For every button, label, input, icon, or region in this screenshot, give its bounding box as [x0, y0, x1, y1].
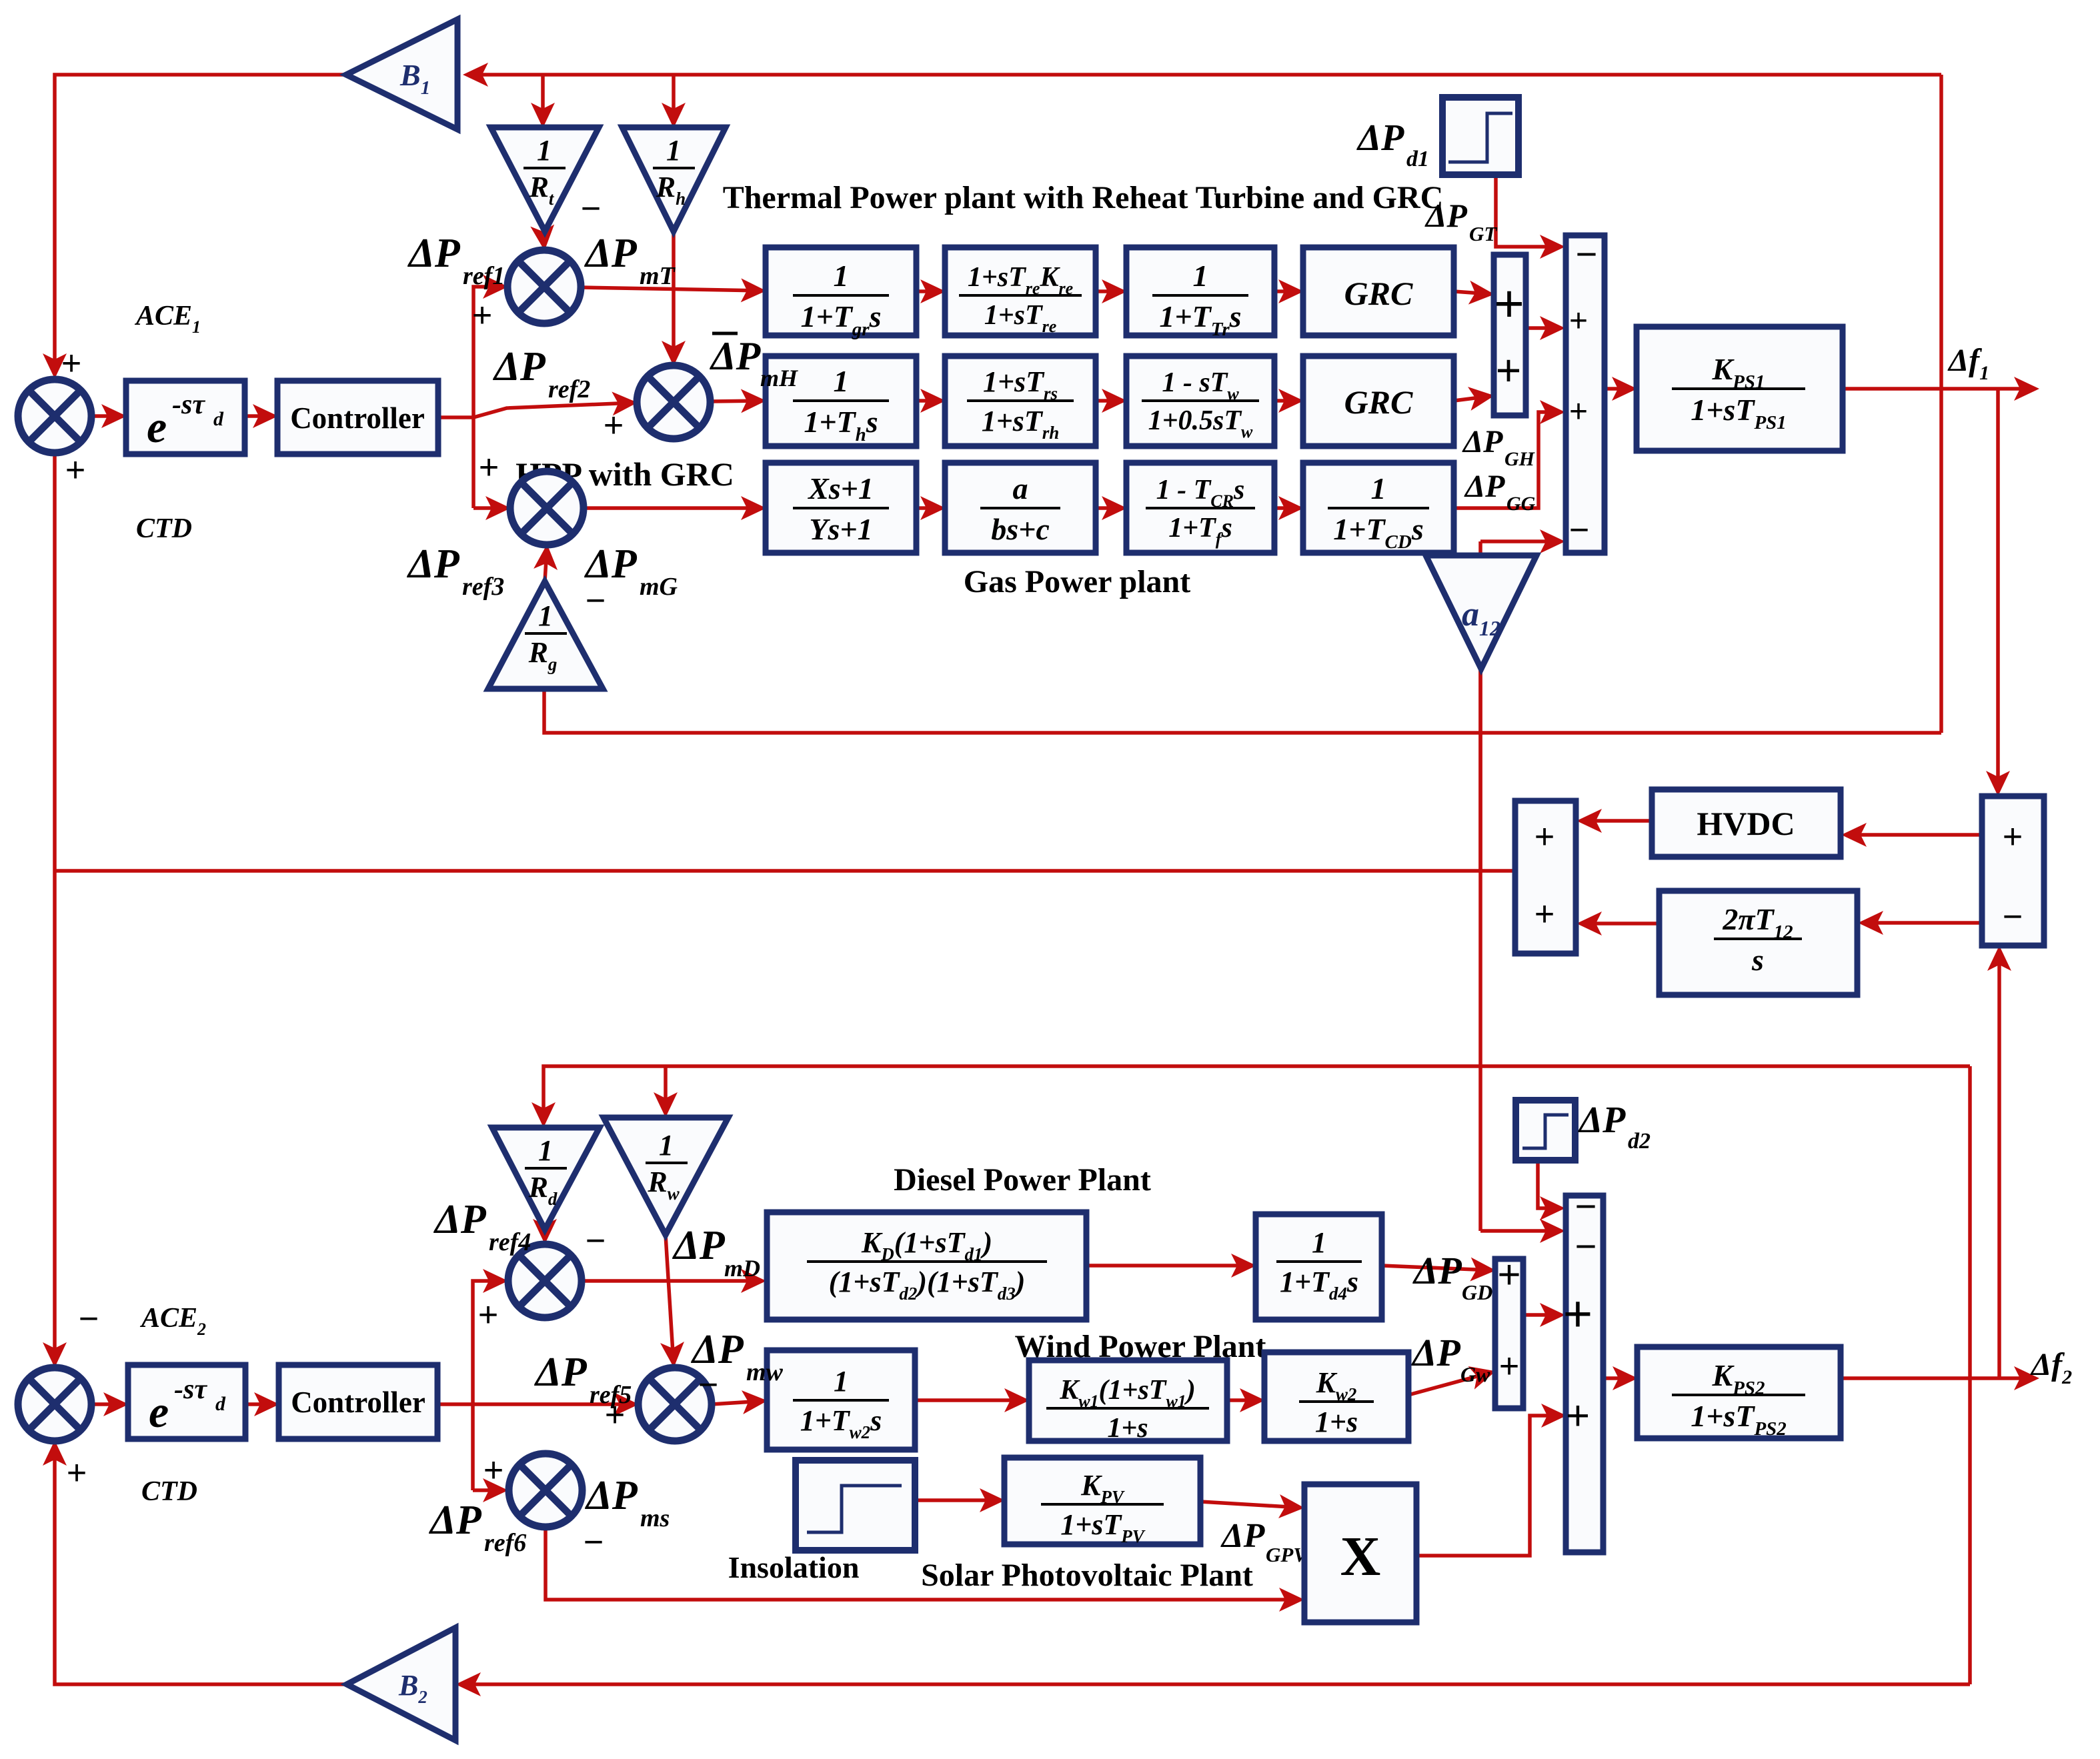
wire top feedback line y112 from Df1 to B1 [467, 73, 1941, 77]
block GRC thermal [1303, 247, 1454, 335]
wire 1/Rt apex into DPref1 summer [543, 231, 544, 247]
svg-text:1: 1 [1312, 1226, 1326, 1259]
svg-text:d1: d1 [1406, 147, 1429, 171]
block wind Kw1 [1029, 1360, 1227, 1441]
svg-text:+: + [1569, 303, 1588, 339]
block KPS2 [1637, 1347, 1841, 1438]
block hydro compensator [945, 356, 1096, 446]
svg-text:+: + [2003, 817, 2023, 856]
wire drop into 1/Rh [672, 75, 676, 124]
svg-text:(1+sTd2​)(1+sTd3​): (1+sTd2​)(1+sTd3​) [829, 1266, 1026, 1304]
block Controller area2 [279, 1365, 437, 1439]
svg-text:ΔP: ΔP [690, 1327, 744, 1372]
svg-text:+: + [483, 1451, 503, 1490]
svg-text:ΔP: ΔP [1462, 424, 1503, 459]
block DPd1 step source [1442, 97, 1518, 175]
svg-text:GRC: GRC [1344, 383, 1413, 421]
wire narrow summer2 output into big summer2 [1523, 1313, 1561, 1317]
svg-text:ΔP: ΔP [1412, 1249, 1462, 1292]
block KPS1 [1637, 327, 1843, 451]
wire tie summer to 2piT12 block [1862, 921, 1982, 925]
svg-text:+: + [1534, 895, 1554, 934]
svg-text:ACE1​: ACE1​ [134, 301, 201, 337]
tie summer right plus-minus [1982, 796, 2044, 946]
svg-text:ΔP: ΔP [1220, 1517, 1266, 1555]
svg-text:e: e [149, 1386, 169, 1437]
wire DPd2 step output into big summer2 [1538, 1160, 1561, 1208]
svg-text:bs+c: bs+c [991, 512, 1050, 546]
wire vertical right x2911 Df1 junction down [1939, 75, 1943, 733]
svg-text:GRC: GRC [1344, 275, 1413, 312]
wire 1/Rd apex into DPref4 summer [543, 1230, 547, 1240]
svg-text:−: − [581, 189, 601, 228]
svg-text:−: − [1569, 511, 1589, 549]
wire B2 input from Df2 [459, 1682, 1970, 1686]
block wind Tw2 [767, 1350, 915, 1450]
svg-text:1: 1 [834, 1365, 848, 1398]
wire DPmD from DPref4 to diesel block [582, 1279, 762, 1283]
wire controller to DPmH summer [473, 403, 634, 417]
wire gas output riser into big summer1 [1454, 412, 1561, 508]
wire tie-line sum output to left x82 bus [55, 869, 1515, 873]
svg-text:ΔP: ΔP [672, 1223, 726, 1268]
wire 1/Rg apex up into DPref3 summer [545, 548, 547, 581]
summing junction ACE2 [18, 1368, 91, 1441]
wire a12 input segment and into big summer1 minus [1478, 555, 1482, 871]
svg-text:e: e [147, 401, 167, 452]
summing junction DPmH [637, 365, 710, 439]
svg-text:1: 1 [834, 364, 849, 398]
wire a12 apex down to area2 big summer2 minus [1478, 669, 1482, 1231]
svg-text:+: + [67, 1454, 87, 1492]
svg-text:1: 1 [659, 1129, 674, 1162]
svg-text:GG: GG [1506, 493, 1536, 515]
svg-text:1+0.5sTw​: 1+0.5sTw​ [1148, 405, 1253, 441]
block HVDC [1652, 789, 1841, 857]
svg-text:s: s [1751, 943, 1764, 977]
svg-text:a: a [1013, 471, 1028, 505]
wire hydro row arrows [916, 399, 942, 403]
block GRC hydro [1303, 356, 1454, 446]
block gas valve [945, 463, 1096, 553]
wire DPref5 to wind block [712, 1401, 764, 1404]
svg-text:+: + [1496, 345, 1522, 395]
wire tie summer to HVDC [1845, 833, 1982, 837]
svg-text:1+s: 1+s [1315, 1406, 1358, 1438]
svg-text:CTD: CTD [141, 1476, 197, 1507]
wire gas row arrows [916, 506, 942, 510]
wire DPd1 step output into big summer1 [1496, 175, 1561, 247]
wire 1/Rh apex down into DPmH summer [672, 231, 676, 362]
wire X output riser into big summer2 [1416, 1416, 1562, 1556]
svg-text:ref3: ref3 [462, 573, 504, 601]
summer big area1 [1566, 235, 1605, 553]
summer narrow area1 [1494, 255, 1526, 415]
wire Df2 riser x2954 down to B2 line [1968, 1066, 1972, 1684]
svg-text:1: 1 [538, 599, 553, 632]
wire KPV output DPGPV into X block [1200, 1502, 1300, 1508]
block thermal governor [766, 247, 916, 335]
wire area2 droop feedback line y1599 [544, 1066, 1970, 1124]
svg-text:+: + [1569, 394, 1588, 429]
wire drop into 1/Rw [664, 1066, 668, 1114]
svg-text:+: + [1534, 817, 1554, 856]
summer big area2 [1566, 1196, 1603, 1552]
wire Td4 output DPGD into narrow summer2 [1382, 1266, 1492, 1270]
svg-text:−: − [79, 1300, 99, 1338]
svg-text:ΔP: ΔP [406, 541, 460, 587]
wire thermal row arrows [916, 289, 942, 293]
wire DPmT from DPref1 summer to thermal row [581, 287, 762, 291]
block delay e2 [128, 1365, 245, 1439]
svg-text:+: + [61, 344, 81, 383]
wire delay e1 to Controller1 [245, 414, 274, 418]
svg-text:−: − [1575, 1225, 1597, 1267]
svg-text:−: − [586, 581, 606, 620]
svg-text:+: + [1563, 1286, 1593, 1342]
svg-text:1+sTre​Kre​: 1+sTre​Kre​ [968, 262, 1073, 298]
wire ACE2 summer to delay e2 [91, 1402, 125, 1406]
wire Kw1 to Kw2 [1227, 1398, 1261, 1402]
svg-text:Xs+1: Xs+1 [807, 471, 874, 505]
wire 2piT12 to left plus-plus summer [1581, 922, 1659, 926]
svg-text:Insolation: Insolation [728, 1550, 860, 1584]
svg-text:+: + [1497, 1252, 1520, 1297]
block thermal turbine [1126, 247, 1274, 335]
wire Kw2 output DPGw into narrow summer2 [1408, 1372, 1492, 1395]
svg-text:mH: mH [760, 365, 798, 391]
svg-text:1: 1 [1193, 259, 1208, 293]
wire big summer1 to KPS1 [1605, 387, 1633, 391]
summing junction DPref1 [507, 250, 581, 323]
wire diesel to Td4 block [1086, 1264, 1252, 1268]
wire HVDC to left plus-plus summer [1581, 819, 1652, 823]
wire 1/Rw apex into DPref5 summer [666, 1235, 674, 1364]
svg-text:Thermal Power plant with Rehea: Thermal Power plant with Reheat Turbine … [723, 180, 1444, 215]
svg-text:-sτ: -sτ [172, 389, 205, 420]
block gas discharge [1303, 463, 1454, 553]
svg-text:GH: GH [1504, 448, 1536, 470]
svg-text:1+Td4​s: 1+Td4​s [1280, 1266, 1358, 1304]
wire DPref6 down and right into X block [546, 1527, 1300, 1600]
svg-text:GD: GD [1462, 1280, 1492, 1304]
svg-text:+: + [65, 451, 85, 489]
wire B1 output to ACE1 summer [55, 75, 346, 375]
block 2piT12 over s [1659, 891, 1857, 995]
wire Df1 output [1843, 387, 2035, 391]
gain B2 triangle [347, 1628, 455, 1740]
wire delay e2 to Controller2 [245, 1402, 275, 1406]
svg-text:1+Tf​s: 1+Tf​s [1168, 513, 1232, 549]
wire big summer2 to KPS2 [1603, 1376, 1634, 1380]
block insolation step source [796, 1460, 915, 1550]
svg-text:+: + [479, 448, 499, 487]
summing junction DPref4 [508, 1244, 582, 1318]
svg-text:Gw: Gw [1460, 1362, 1490, 1386]
block gas combustor [1126, 463, 1274, 553]
svg-text:ref5: ref5 [590, 1381, 632, 1409]
block hydro turbine [1126, 356, 1274, 446]
block solar KPV [1004, 1458, 1200, 1544]
block delay e1 [126, 381, 245, 454]
wire DPmH summer to hydro row [710, 401, 762, 401]
summing junction DPref6 [509, 1454, 582, 1527]
block wind Kw2 [1264, 1352, 1408, 1441]
svg-text:+: + [604, 406, 624, 445]
svg-text:CTD: CTD [136, 513, 192, 544]
wire 1/Rg feedback line y1099 [544, 689, 1941, 733]
svg-text:d2: d2 [1628, 1129, 1651, 1154]
svg-text:Diesel Power Plant: Diesel Power Plant [894, 1162, 1151, 1198]
svg-text:d: d [213, 408, 224, 430]
gain 1/Rt triangle [491, 127, 599, 231]
summer narrow area2 [1495, 1259, 1523, 1408]
wire x82 vertical bus ACE tie input [53, 453, 57, 871]
block diesel engine KD [767, 1212, 1086, 1320]
summing junction ACE1 [18, 379, 91, 453]
block diesel Td4 [1256, 1214, 1382, 1320]
svg-text:ΔP: ΔP [584, 541, 638, 587]
gain 1/Rd triangle [492, 1128, 600, 1230]
wire insolation step to KPV [915, 1498, 1001, 1502]
svg-text:ref6: ref6 [484, 1529, 526, 1557]
svg-text:ΔP: ΔP [1578, 1100, 1626, 1141]
wire Tw2 to Kw1 [915, 1398, 1026, 1402]
svg-text:1: 1 [538, 1134, 553, 1167]
svg-text:ΔP: ΔP [1356, 117, 1404, 159]
svg-text:Ys+1: Ys+1 [809, 512, 872, 546]
svg-text:ΔP: ΔP [428, 1498, 482, 1543]
svg-text:ACE2​: ACE2​ [139, 1303, 206, 1339]
svg-text:−: − [584, 1523, 604, 1562]
gain B1 triangle [346, 19, 457, 129]
svg-text:1: 1 [537, 134, 552, 167]
wire controller to DPref3 summer [473, 506, 507, 510]
svg-text:ref1: ref1 [463, 262, 505, 290]
block DPd2 step source [1516, 1100, 1575, 1160]
svg-text:ΔP: ΔP [1411, 1331, 1460, 1374]
gain 1/Rg triangle [488, 581, 603, 689]
gain 1/Rh triangle [622, 127, 726, 231]
svg-text:Controller: Controller [290, 401, 425, 435]
block gas governor [766, 463, 916, 553]
svg-text:1: 1 [834, 259, 849, 293]
svg-text:ΔP: ΔP [433, 1197, 487, 1242]
wire DPref3 summer to gas row [584, 506, 762, 510]
svg-text:−: − [1575, 1185, 1597, 1227]
svg-text:ΔP: ΔP [584, 1473, 638, 1518]
svg-text:ΔP: ΔP [492, 344, 546, 389]
svg-text:-sτ: -sτ [174, 1374, 207, 1405]
svg-text:−: − [1576, 233, 1598, 275]
wire B2 output to ACE2 summer [55, 1444, 455, 1684]
svg-text:mT: mT [640, 262, 676, 290]
wire Controller2 output split [437, 1402, 475, 1406]
wire Df2 output [1841, 1376, 2035, 1380]
wire drop into 1/Rt [541, 75, 545, 124]
svg-text:mD: mD [724, 1255, 760, 1282]
block Controller area1 [277, 381, 438, 454]
gain a12 triangle [1426, 555, 1536, 669]
svg-text:+: + [1494, 274, 1524, 333]
svg-text:ΔP: ΔP [1424, 197, 1467, 234]
svg-text:−: − [586, 1222, 606, 1260]
block thermal reheat [945, 247, 1096, 335]
svg-text:Solar Photovoltaic Plant: Solar Photovoltaic Plant [921, 1558, 1253, 1593]
block multiplier X [1304, 1484, 1416, 1622]
svg-text:mG: mG [640, 573, 678, 601]
svg-text:ref2: ref2 [548, 375, 590, 403]
svg-text:ref4: ref4 [489, 1228, 531, 1256]
svg-text:ΔP: ΔP [534, 1350, 588, 1395]
wire Controller1 output split [438, 415, 473, 419]
svg-text:1+s: 1+s [1107, 1413, 1148, 1444]
svg-text:ΔP: ΔP [407, 231, 461, 276]
svg-text:−: − [2003, 898, 2023, 936]
svg-text:GT: GT [1469, 222, 1497, 245]
svg-text:mw: mw [746, 1358, 784, 1386]
svg-text:1: 1 [666, 134, 681, 167]
svg-text:Gas Power plant: Gas Power plant [964, 564, 1190, 599]
svg-text:+: + [1566, 1393, 1590, 1439]
svg-text:1: 1 [1371, 471, 1386, 505]
tie summer left plus-plus [1515, 801, 1576, 954]
summing junction DPref3 [510, 471, 584, 545]
svg-text:ΔP: ΔP [584, 231, 638, 276]
svg-text:ms: ms [640, 1504, 670, 1532]
label DPmH with overbar [712, 332, 738, 335]
svg-text:+: + [1499, 1347, 1519, 1386]
svg-text:Controller: Controller [291, 1386, 425, 1419]
summing junction DPref5 [638, 1368, 712, 1441]
svg-text:d: d [215, 1393, 226, 1415]
wire ACE1 summer to delay block e1 [91, 414, 123, 418]
svg-text:+: + [472, 296, 492, 335]
svg-text:ΔP: ΔP [1464, 469, 1505, 504]
wire Df2 tee up into tie summer minus [1997, 950, 2001, 1378]
block hydro governor [766, 356, 916, 446]
svg-text:X: X [1340, 1526, 1381, 1588]
svg-text:HVDC: HVDC [1697, 805, 1795, 842]
svg-text:+: + [478, 1296, 498, 1334]
gain 1/Rw triangle [604, 1118, 728, 1235]
wire Df1 tee down into tie summer plus [1996, 389, 2000, 792]
wire thermal+hydro summer output into big summer1 [1526, 326, 1561, 330]
svg-text:ΔP: ΔP [710, 334, 762, 378]
